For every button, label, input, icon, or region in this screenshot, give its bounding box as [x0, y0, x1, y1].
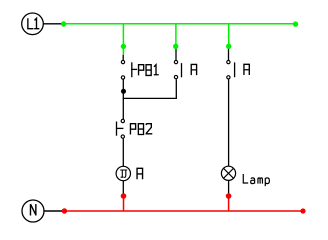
wire contact R to lamp (black) — [228, 79, 230, 166]
lamp Lamp — [221, 166, 269, 186]
node top rail left (green dot) — [61, 21, 66, 26]
node col3 drop (green dot) — [226, 44, 231, 49]
node bottom rail left (red dot) — [62, 208, 67, 213]
node bottom rail right end (red dot) — [300, 208, 305, 213]
wire col3 to bottom rail (red) — [228, 196, 230, 211]
wire col2 drop from rail (green) — [175, 24, 177, 47]
wire PB2 to coil R (black) — [122, 139, 124, 167]
wire col3 drop from rail (green) — [228, 24, 230, 47]
node col2 drop (green dot) — [173, 44, 178, 49]
wire N to bottom rail (black) — [44, 210, 64, 212]
wire col1 drop from rail (green) — [122, 24, 124, 55]
wire col1 stub to PB1 (black) — [122, 55, 124, 60]
wire col3 stub to contact R (black) — [228, 49, 230, 60]
node col1 drop (green dot) — [121, 44, 126, 49]
wire top rail L1 (green, energized) — [64, 23, 296, 25]
node col1 above bottom rail (red dot) — [121, 193, 127, 199]
wire L1 to top rail (black) — [43, 23, 63, 25]
wire bottom rail N (red, energized) — [64, 210, 303, 212]
node junction below PB1 (black dot) — [121, 89, 126, 94]
wire parallel branch to seal-in contact (black) — [123, 79, 177, 98]
wire lamp to node (black) — [228, 180, 230, 193]
contact R seal-in (NO) — [174, 60, 196, 78]
wire col1 to bottom rail (red) — [123, 196, 125, 211]
node top rail right end (green dot) — [293, 21, 298, 26]
contact R lamp branch (NO) — [227, 60, 250, 79]
terminal L1 — [22, 13, 44, 35]
wire col2 stub to contact R (black) — [175, 49, 177, 60]
pushbutton PB1 (NO) — [121, 60, 158, 79]
wire coil R to node (black) — [122, 181, 124, 194]
node col3 above bottom rail (red dot) — [226, 193, 232, 199]
coil R (relay coil) — [116, 166, 142, 180]
terminal N — [22, 200, 44, 222]
wire PB1 to PB2 (black) — [122, 79, 124, 119]
pushbutton PB2 (NC) — [117, 119, 153, 138]
